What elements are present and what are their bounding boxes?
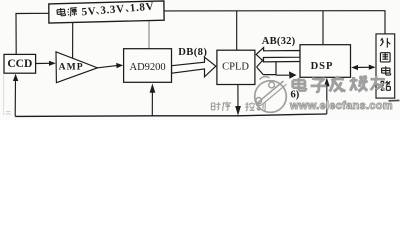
wire power box to CCD (left drop) xyxy=(16,13,49,54)
svg-text:CCD: CCD xyxy=(7,58,32,70)
svg-text:AB(32): AB(32) xyxy=(262,36,296,47)
wire jog and solid arrow into DSP xyxy=(276,62,289,75)
op-amp AMP triangle xyxy=(56,52,98,83)
bus DB(8) hollow arrow AD9200 to CPLD xyxy=(172,57,216,77)
bottom control bus xyxy=(15,114,327,116)
arrow CPLD down to bottom bus xyxy=(237,85,239,108)
wire top bus to DSP xyxy=(322,11,324,45)
arrow bottom bus up into CCD xyxy=(14,78,16,116)
svg-text:3.3V: 3.3V xyxy=(100,3,125,17)
double arrow DSP to peripheral xyxy=(353,66,374,68)
label 控制 (control) xyxy=(245,102,265,111)
svg-text:DB(8): DB(8) xyxy=(178,47,207,58)
wire power box to AD9200 xyxy=(148,21,150,49)
svg-text:DSP: DSP xyxy=(311,61,334,72)
power supply box xyxy=(49,1,164,23)
wire top bus to CPLD xyxy=(236,11,238,51)
DSP box xyxy=(300,45,351,78)
arrow bottom bus up into AD9200 xyxy=(151,90,153,116)
lower bus hollow arrow DSP to CPLD xyxy=(257,59,300,74)
svg-text:AMP: AMP xyxy=(59,61,84,72)
peripheral circuit box xyxy=(376,34,395,98)
bus AB(32) hollow arrow DSP to CPLD xyxy=(256,48,300,62)
arrow CCD to AMP xyxy=(36,62,51,64)
faint scan artifact left xyxy=(3,74,5,115)
watermark logo circle xyxy=(255,77,287,113)
peripheral label 外围电路 vertical xyxy=(380,38,390,90)
watermark text 电子发烧友 xyxy=(293,75,385,92)
wire power box to AMP xyxy=(72,23,74,59)
CCD box xyxy=(4,54,36,73)
svg-text:www.elecfans.com: www.elecfans.com xyxy=(289,100,393,112)
svg-text:5V: 5V xyxy=(81,5,97,18)
AD9200 box xyxy=(124,49,172,83)
svg-text:CPLD: CPLD xyxy=(222,61,249,72)
CPLD box xyxy=(217,50,255,84)
top bus wire power to right column xyxy=(164,11,385,34)
arrow bottom bus up into DSP xyxy=(326,84,328,114)
label 时序 (timing) xyxy=(211,102,231,111)
scan mark bottom right edge xyxy=(389,99,400,101)
svg-text:1.8V: 1.8V xyxy=(129,1,154,15)
arrow AMP to AD9200 xyxy=(98,66,118,68)
svg-text:AD9200: AD9200 xyxy=(130,62,166,73)
power label 电源 5V、3.3V、1.8V xyxy=(57,7,78,18)
